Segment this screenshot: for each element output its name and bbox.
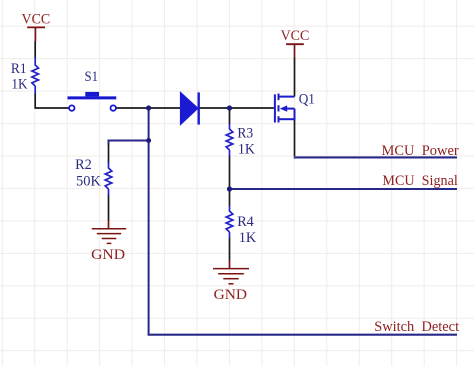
svg-text:R3: R3 xyxy=(237,126,253,142)
svg-text:Q1: Q1 xyxy=(299,92,315,108)
svg-text:R1: R1 xyxy=(11,61,27,77)
svg-text:1K: 1K xyxy=(11,77,28,93)
svg-text:Switch Detect: Switch Detect xyxy=(374,319,459,335)
svg-text:GND: GND xyxy=(91,247,125,263)
svg-text:1K: 1K xyxy=(239,230,257,246)
svg-text:R2: R2 xyxy=(75,157,92,173)
svg-text:MCU Power: MCU Power xyxy=(382,143,459,159)
svg-text:1K: 1K xyxy=(238,141,256,157)
svg-text:GND: GND xyxy=(214,287,247,303)
svg-text:VCC: VCC xyxy=(281,28,310,44)
svg-text:VCC: VCC xyxy=(22,11,51,27)
svg-text:S1: S1 xyxy=(85,69,99,85)
svg-text:50K: 50K xyxy=(76,174,101,190)
svg-text:MCU Signal: MCU Signal xyxy=(382,173,457,189)
svg-text:R4: R4 xyxy=(237,214,254,230)
